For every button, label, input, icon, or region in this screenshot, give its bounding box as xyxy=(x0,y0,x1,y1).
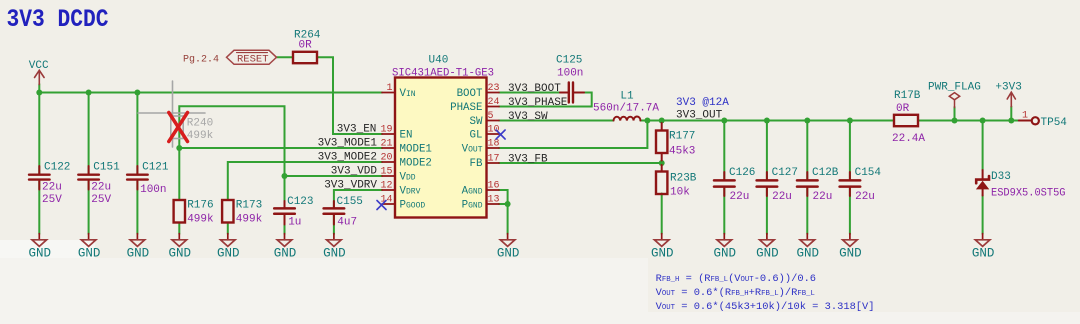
svg-text:1: 1 xyxy=(386,83,392,94)
svg-text:22.4A: 22.4A xyxy=(892,133,925,145)
svg-text:GND: GND xyxy=(839,247,862,261)
wire VCC stem xyxy=(38,84,40,93)
svg-text:C154: C154 xyxy=(855,167,882,179)
wire C155 to GND xyxy=(333,215,335,234)
svg-text:GND: GND xyxy=(169,247,192,261)
svg-text:C121: C121 xyxy=(142,162,169,174)
pin 21 MODE1 xyxy=(382,147,395,149)
svg-text:C151: C151 xyxy=(93,162,120,174)
svg-text:22u: 22u xyxy=(855,191,875,203)
ground D33 xyxy=(975,240,990,247)
svg-text:1u: 1u xyxy=(288,217,301,229)
node bus dots xyxy=(36,90,42,96)
svg-text:24: 24 xyxy=(488,97,500,108)
svg-text:17: 17 xyxy=(488,154,500,165)
svg-text:21: 21 xyxy=(380,139,392,150)
ground R173 xyxy=(221,240,236,247)
wire VDD row xyxy=(285,175,383,177)
wire MODE1 to R176 xyxy=(178,148,180,200)
pin 1 VIN xyxy=(382,92,395,94)
svg-text:C126: C126 xyxy=(729,167,755,179)
svg-text:TP54: TP54 xyxy=(1041,117,1068,129)
svg-text:VIN: VIN xyxy=(400,88,416,100)
wire C151 column xyxy=(88,93,90,175)
ground C154 xyxy=(843,240,858,247)
svg-text:R173: R173 xyxy=(236,200,262,212)
svg-text:GND: GND xyxy=(714,247,737,261)
wire VDRV to C155 xyxy=(334,190,382,208)
svg-text:19: 19 xyxy=(380,125,392,136)
pin numbers left (1,19,21,20,15,12,14) xyxy=(380,83,392,206)
svg-text:499k: 499k xyxy=(236,213,263,225)
node VOUT rail xyxy=(644,118,650,124)
svg-text:22u: 22u xyxy=(730,191,750,203)
svg-text:560n/17.7A: 560n/17.7A xyxy=(593,103,659,115)
svg-text:PHASE: PHASE xyxy=(450,102,482,114)
svg-text:C125: C125 xyxy=(556,55,582,67)
ground C128 xyxy=(800,240,815,247)
svg-text:RFB_H = (RFB_L(VOUT-0.6))/0.6: RFB_H = (RFB_L(VOUT-0.6))/0.6 xyxy=(656,273,816,285)
IC pin stubs xyxy=(382,93,499,205)
wire 3V3 rail xyxy=(640,120,894,122)
svg-text:VOUT = 0.6*(45k3+10k)/10k = 3.: VOUT = 0.6*(45k3+10k)/10k = 3.318[V] xyxy=(656,301,875,313)
pin 14 PGOOD xyxy=(382,203,395,205)
svg-text:100n: 100n xyxy=(140,184,166,196)
svg-text:3V3_MODE2: 3V3_MODE2 xyxy=(318,152,377,164)
svg-text:13: 13 xyxy=(488,195,500,206)
svg-text:3V3_VDRV: 3V3_VDRV xyxy=(324,180,377,192)
svg-text:D33: D33 xyxy=(991,171,1011,183)
svg-text:16: 16 xyxy=(488,181,500,192)
svg-text:0R: 0R xyxy=(896,103,910,115)
svg-text:C123: C123 xyxy=(287,196,313,208)
svg-text:25V: 25V xyxy=(42,194,62,206)
svg-text:10k: 10k xyxy=(670,187,690,199)
pin 12 VDRV xyxy=(382,189,395,191)
svg-text:BOOT: BOOT xyxy=(457,88,483,100)
svg-text:VDRV: VDRV xyxy=(400,186,421,198)
wire VOUT to rail xyxy=(499,121,647,149)
svg-text:499k: 499k xyxy=(187,130,214,142)
node rail caps xyxy=(721,118,727,124)
ground R238 xyxy=(654,240,669,247)
wire VDD to C123 xyxy=(284,176,286,208)
node FB xyxy=(659,160,665,166)
pin 15 VDD xyxy=(382,175,395,177)
svg-text:MODE1: MODE1 xyxy=(400,144,432,156)
svg-text:3V3_EN: 3V3_EN xyxy=(337,124,377,136)
pin 20 MODE2 xyxy=(382,161,395,163)
svg-text:SW: SW xyxy=(470,116,483,128)
svg-text:R177: R177 xyxy=(669,131,695,143)
svg-text:3V3_OUT: 3V3_OUT xyxy=(676,109,723,121)
svg-text:4u7: 4u7 xyxy=(337,217,357,229)
ground C126 xyxy=(717,240,732,247)
svg-text:GL: GL xyxy=(470,130,483,142)
svg-text:GND: GND xyxy=(651,247,674,261)
ground C155 xyxy=(327,240,342,247)
wire FB row xyxy=(499,162,662,164)
svg-text:RESET: RESET xyxy=(237,54,269,66)
wire D33 column xyxy=(982,121,984,171)
pin names right (BOOT,PHASE,SW,GL,VOUT,FB,AGND,PGND) xyxy=(450,88,483,212)
wire C128 column xyxy=(806,121,808,180)
pin 5 SW xyxy=(487,120,500,122)
svg-text:R240: R240 xyxy=(187,118,213,130)
ground C151 xyxy=(81,240,96,247)
pin 23 BOOT xyxy=(487,92,500,94)
node MODE1 xyxy=(176,145,182,151)
svg-text:VCC: VCC xyxy=(29,60,49,72)
svg-text:GND: GND xyxy=(274,247,297,261)
svg-text:GND: GND xyxy=(972,247,995,261)
wire C121 column xyxy=(136,93,138,175)
svg-text:20: 20 xyxy=(380,153,392,164)
svg-text:PGOOD: PGOOD xyxy=(400,200,426,212)
wire C154 column xyxy=(849,121,851,180)
node rail right xyxy=(952,118,958,124)
ground GND text labels xyxy=(29,247,995,261)
svg-text:L1: L1 xyxy=(620,91,634,103)
ground C121 xyxy=(130,240,145,247)
wire C125 to PHASE xyxy=(499,93,592,107)
svg-text:3V3 @12A: 3V3 @12A xyxy=(676,97,729,109)
svg-text:GND: GND xyxy=(29,247,52,261)
svg-text:VDD: VDD xyxy=(400,172,416,184)
node VDD xyxy=(282,173,288,179)
pin names left (VIN,EN,MODE1,MODE2,VDD,VDRV,PGOOD) xyxy=(400,88,432,212)
no-connect X pin 10 xyxy=(496,130,505,139)
wire BOOT row xyxy=(499,92,567,94)
svg-text:25V: 25V xyxy=(91,194,111,206)
svg-text:3V3_BOOT: 3V3_BOOT xyxy=(508,83,561,95)
svg-text:22u: 22u xyxy=(91,182,111,194)
svg-text:3V3_PHASE: 3V3_PHASE xyxy=(508,97,568,109)
svg-text:3V3_VDD: 3V3_VDD xyxy=(331,166,378,178)
svg-text:+3V3: +3V3 xyxy=(995,82,1021,94)
svg-text:45k3: 45k3 xyxy=(669,146,695,158)
svg-text:GND: GND xyxy=(78,247,101,261)
svg-text:22u: 22u xyxy=(42,182,62,194)
svg-text:PGND: PGND xyxy=(462,200,483,212)
svg-text:GND: GND xyxy=(217,247,240,261)
pin 17 FB xyxy=(487,162,500,164)
svg-text:R23B: R23B xyxy=(670,173,697,185)
svg-text:VOUT: VOUT xyxy=(462,144,483,156)
wire C127 column xyxy=(766,121,768,180)
svg-text:12: 12 xyxy=(380,181,392,192)
svg-text:C122: C122 xyxy=(44,162,70,174)
no-connect X pin 14 xyxy=(377,201,386,210)
wire C126 column xyxy=(723,121,725,180)
svg-text:23: 23 xyxy=(488,83,500,94)
svg-text:1: 1 xyxy=(1022,111,1028,122)
svg-text:10: 10 xyxy=(488,125,500,136)
ground C127 xyxy=(760,240,775,247)
wire C122 column xyxy=(38,93,40,175)
svg-text:MODE2: MODE2 xyxy=(400,158,432,170)
svg-text:AGND: AGND xyxy=(462,186,483,198)
svg-text:FB: FB xyxy=(470,158,483,170)
svg-text:U40: U40 xyxy=(429,55,449,67)
ground PGND xyxy=(500,240,515,247)
ground C123 xyxy=(277,240,292,247)
svg-text:Pg.2.4: Pg.2.4 xyxy=(183,55,219,66)
svg-text:GND: GND xyxy=(127,247,150,261)
pin 18 VOUT xyxy=(487,147,500,149)
svg-text:3V3_SW: 3V3_SW xyxy=(508,111,548,123)
wire R173 to GND xyxy=(227,223,229,235)
wire to TP54 xyxy=(1011,120,1019,122)
pin numbers right (23,24,5,10,18,17,16,13) xyxy=(488,83,500,206)
pin 13 PGND xyxy=(487,203,500,205)
svg-text:PWR_FLAG: PWR_FLAG xyxy=(928,82,981,94)
wire SW row xyxy=(499,120,614,122)
svg-text:C155: C155 xyxy=(337,196,363,208)
svg-text:GND: GND xyxy=(497,247,520,261)
ground C122 xyxy=(32,240,47,247)
DNP red X over R240 xyxy=(169,113,188,142)
wire C123 to GND xyxy=(284,215,286,234)
svg-text:EN: EN xyxy=(400,130,413,142)
svg-text:22u: 22u xyxy=(813,191,833,203)
svg-text:5: 5 xyxy=(488,111,494,122)
wire +3V3 stem xyxy=(1010,106,1012,120)
svg-text:499k: 499k xyxy=(187,213,214,225)
svg-text:GND: GND xyxy=(756,247,779,261)
svg-text:C12B: C12B xyxy=(812,167,839,179)
svg-text:0R: 0R xyxy=(299,39,313,51)
svg-text:R176: R176 xyxy=(187,200,213,212)
node PGND xyxy=(505,201,511,207)
svg-text:SIC431AED-T1-GE3: SIC431AED-T1-GE3 xyxy=(392,68,494,80)
lighter band bottom-left xyxy=(0,258,648,324)
svg-text:ESD9X5.0ST5G: ESD9X5.0ST5G xyxy=(991,188,1066,200)
svg-text:C127: C127 xyxy=(772,167,798,179)
pin 24 PHASE xyxy=(487,106,500,108)
ground pin stubs xyxy=(39,234,982,240)
pin 19 EN xyxy=(382,133,395,135)
svg-text:22u: 22u xyxy=(772,191,792,203)
ground R176 xyxy=(172,240,187,247)
wire MODE1 net xyxy=(179,147,382,149)
svg-text:R17B: R17B xyxy=(894,90,921,102)
svg-text:3V3_MODE1: 3V3_MODE1 xyxy=(318,138,378,150)
svg-text:3V3 DCDC: 3V3 DCDC xyxy=(7,5,109,34)
wire R176 to GND xyxy=(178,223,180,235)
svg-text:3V3_FB: 3V3_FB xyxy=(508,154,548,166)
svg-text:GND: GND xyxy=(797,247,820,261)
wire R264 to EN xyxy=(317,57,382,134)
wire AGND to PGND xyxy=(499,190,508,204)
wire R238 to GND xyxy=(661,194,663,235)
pin 10 GL xyxy=(487,133,500,135)
svg-text:100n: 100n xyxy=(557,68,583,80)
pin 16 AGND xyxy=(487,189,500,191)
wire RESET to R264 xyxy=(277,56,294,58)
wire MODE2 net xyxy=(228,162,382,200)
svg-text:GND: GND xyxy=(323,247,346,261)
wire main VCC bus xyxy=(39,92,382,94)
svg-text:15: 15 xyxy=(380,167,392,178)
wire PWR_FLAG stem xyxy=(954,107,956,121)
svg-text:18: 18 xyxy=(488,139,500,150)
